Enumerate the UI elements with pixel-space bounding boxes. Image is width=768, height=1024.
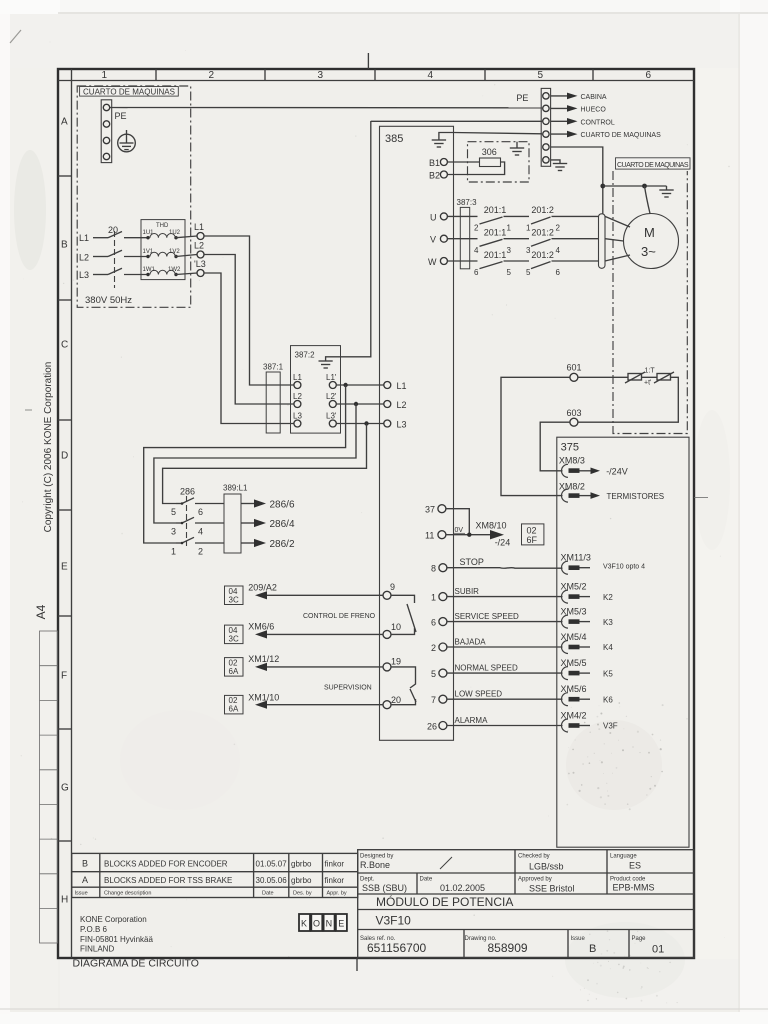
sense wire from L2 junction — [154, 404, 356, 523]
svg-text:CABINA: CABINA — [581, 94, 607, 101]
svg-text:2: 2 — [474, 224, 479, 233]
svg-text:Copyright (C) 2006 KONE Corpor: Copyright (C) 2006 KONE Corporation — [43, 362, 54, 533]
svg-text:1V1: 1V1 — [143, 249, 154, 255]
svg-text:4: 4 — [428, 70, 434, 81]
choke winding 1W1-1W2 — [143, 267, 182, 276]
wire conduit to motor V — [605, 239, 624, 241]
column numbers — [102, 70, 652, 81]
svg-text:XM11/3: XM11/3 — [561, 553, 591, 563]
svg-text:6: 6 — [198, 507, 203, 517]
svg-text:2: 2 — [209, 70, 215, 81]
brake contact blade 9-10 — [391, 595, 416, 634]
svg-text:1W1: 1W1 — [143, 267, 156, 273]
svg-text:5: 5 — [431, 669, 436, 679]
filter terminal L1 in — [294, 382, 301, 389]
svg-text:286/6: 286/6 — [270, 500, 295, 511]
signal 286/2 — [241, 542, 254, 544]
wire conduit to motor U — [605, 216, 630, 227]
svg-text:V3F10: V3F10 — [376, 914, 412, 928]
svg-text:D: D — [61, 451, 68, 462]
svg-text:26: 26 — [427, 722, 437, 732]
motor wire U with contacts 201:1 201:2 — [447, 216, 598, 224]
svg-text:-/24: -/24 — [495, 538, 511, 548]
enclosure label CUARTO DE MAQUINAS — [80, 87, 179, 97]
drive terminal B1 — [440, 159, 447, 166]
svg-text:5: 5 — [526, 268, 531, 277]
brake output box2 04 3C — [225, 625, 244, 644]
top fold mark — [367, 53, 369, 69]
drive terminal W — [440, 258, 447, 265]
svg-text:LOW SPEED: LOW SPEED — [455, 690, 503, 699]
svg-text:L2: L2 — [397, 400, 407, 410]
svg-text:201:2: 201:2 — [531, 250, 554, 260]
wire conduit to motor W — [605, 255, 630, 261]
drive terminal B2 — [440, 171, 447, 178]
svg-text:858909: 858909 — [488, 941, 528, 955]
svg-text:37: 37 — [425, 505, 435, 515]
svg-text:CONTROL DE FRENO: CONTROL DE FRENO — [303, 613, 376, 620]
svg-text:01.05.07: 01.05.07 — [256, 860, 288, 869]
svg-text:11: 11 — [425, 531, 434, 541]
title block left table — [72, 853, 358, 897]
svg-text:B: B — [589, 943, 596, 955]
svg-text:3: 3 — [171, 527, 176, 537]
center fold tick — [694, 497, 708, 499]
svg-text:STOP: STOP — [460, 557, 484, 567]
switch pole L1 — [93, 232, 148, 238]
top ruler line — [58, 80, 694, 82]
svg-text:A4: A4 — [34, 604, 48, 619]
svg-text:A: A — [82, 875, 88, 885]
svg-text:2: 2 — [431, 643, 436, 653]
svg-text:Issue: Issue — [571, 936, 586, 942]
svg-text:ALARMA: ALARMA — [455, 716, 489, 725]
wire 11 to XM8/10 — [446, 534, 490, 536]
filter earth — [319, 121, 371, 368]
svg-text:SSE Bristol: SSE Bristol — [529, 884, 575, 894]
svg-text:380V 50Hz: 380V 50Hz — [85, 295, 132, 306]
svg-text:gbrbo: gbrbo — [291, 860, 312, 869]
svg-text:651156700: 651156700 — [367, 941, 427, 955]
svg-text:P.O.B 6: P.O.B 6 — [80, 925, 108, 934]
svg-text:Dept.: Dept. — [360, 877, 375, 883]
thermistor pair 1:T — [625, 372, 674, 383]
svg-text:K6: K6 — [603, 695, 613, 704]
PE feed HUECO — [551, 107, 567, 109]
svg-text:FINLAND: FINLAND — [80, 945, 114, 954]
motor earth symbol — [659, 186, 673, 197]
svg-text:O: O — [313, 919, 320, 929]
svg-text:Des. by: Des. by — [293, 891, 312, 897]
title block right part — [358, 850, 694, 958]
svg-text:2: 2 — [198, 547, 203, 557]
svg-text:4: 4 — [198, 527, 203, 537]
wire L3 to filter — [204, 273, 294, 424]
motor M 3~ — [624, 214, 679, 269]
junction L1 — [343, 383, 347, 387]
brake output box 04 3C — [225, 586, 244, 605]
svg-text:finkor: finkor — [325, 876, 345, 885]
node L3 out — [197, 270, 204, 277]
svg-text:Change description: Change description — [104, 891, 151, 897]
svg-text:7: 7 — [431, 695, 436, 705]
svg-text:9: 9 — [390, 582, 395, 592]
svg-text:K3: K3 — [603, 618, 613, 627]
svg-text:1U1: 1U1 — [143, 230, 155, 236]
svg-text:201:1: 201:1 — [484, 205, 507, 215]
row letters — [61, 117, 69, 906]
svg-text:K: K — [301, 919, 307, 929]
motor enclosure label — [616, 158, 691, 169]
drive internal earth — [432, 133, 454, 148]
svg-text:Appr. by: Appr. by — [327, 891, 347, 897]
svg-text:XM5/3: XM5/3 — [561, 606, 587, 616]
svg-text:HUECO: HUECO — [581, 107, 607, 114]
choke winding 1U1-1U2 — [143, 230, 181, 239]
svg-text:L3': L3' — [326, 412, 337, 421]
drive input terminal L2 — [384, 401, 391, 408]
svg-text:Language: Language — [610, 854, 637, 860]
svg-text:8: 8 — [431, 564, 436, 574]
svg-text:603: 603 — [567, 408, 582, 418]
svg-text:286: 286 — [180, 487, 195, 497]
main switch dashed link — [114, 231, 116, 288]
svg-text:201:2: 201:2 — [531, 205, 554, 215]
svg-text:NORMAL SPEED: NORMAL SPEED — [455, 664, 518, 673]
PE feed CUARTO DE MAQUINAS — [551, 133, 567, 135]
KONE logo — [299, 914, 347, 931]
filing strip boxes — [40, 631, 58, 943]
svg-text:L1: L1 — [194, 222, 204, 232]
supervision contact blade 19-20 — [391, 667, 416, 705]
svg-text:C: C — [61, 340, 68, 351]
svg-text:L2: L2 — [79, 253, 89, 263]
svg-text:CUARTO DE MAQUINAS: CUARTO DE MAQUINAS — [617, 162, 689, 169]
svg-text:1: 1 — [171, 547, 176, 557]
svg-text:SUPERVISION: SUPERVISION — [324, 685, 372, 692]
svg-text:V3F10 opto 4: V3F10 opto 4 — [603, 564, 645, 571]
svg-text:6: 6 — [646, 70, 652, 81]
svg-text:2: 2 — [556, 224, 561, 233]
svg-text:6: 6 — [474, 268, 479, 277]
svg-text:DIAGRAMA DE CIRCUITO: DIAGRAMA DE CIRCUITO — [73, 958, 199, 970]
svg-text:SERVICE SPEED: SERVICE SPEED — [455, 612, 520, 621]
svg-text:209/A2: 209/A2 — [248, 583, 277, 593]
svg-text:K5: K5 — [603, 669, 613, 678]
svg-text:E: E — [338, 919, 344, 929]
svg-text:3~: 3~ — [641, 244, 656, 259]
svg-text:Approved by: Approved by — [518, 877, 552, 883]
svg-text:BLOCKS ADDED FOR ENCODER: BLOCKS ADDED FOR ENCODER — [104, 860, 228, 869]
filter terminal L1' out — [329, 382, 336, 389]
drive unit 385 box — [380, 126, 454, 740]
wire resistor loop to B2 — [447, 162, 504, 175]
svg-text:-/24V: -/24V — [606, 466, 628, 476]
svg-text:B: B — [61, 240, 68, 251]
svg-text:L1: L1 — [79, 233, 89, 243]
svg-text:19: 19 — [391, 657, 401, 667]
svg-text:BLOCKS ADDED FOR TSS BRAKE: BLOCKS ADDED FOR TSS BRAKE — [104, 876, 232, 885]
motor wire V with contacts 201:1 201:2 — [447, 239, 598, 247]
protective earth symbol — [118, 130, 136, 152]
svg-text:XM8/3: XM8/3 — [559, 455, 585, 465]
wire choke to L1 node — [176, 236, 197, 238]
svg-text:N: N — [326, 919, 333, 929]
wire choke to L2 node — [176, 255, 197, 257]
svg-text:5: 5 — [171, 507, 176, 517]
svg-text:286/4: 286/4 — [270, 519, 295, 530]
row ticks — [58, 176, 72, 841]
svg-text:387:3: 387:3 — [457, 198, 478, 207]
svg-text:H: H — [61, 895, 68, 906]
svg-text:L3: L3 — [397, 420, 407, 430]
svg-text:XM8/2: XM8/2 — [559, 481, 585, 491]
filter terminal L2' out — [329, 401, 336, 408]
svg-text:1: 1 — [102, 70, 108, 81]
svg-text:K2: K2 — [603, 593, 613, 602]
choke THD box — [141, 220, 185, 280]
svg-text:1:T: 1:T — [645, 368, 656, 375]
contact 1-2 — [176, 537, 224, 543]
svg-text:Page: Page — [632, 936, 647, 942]
wire L3' to drive — [336, 423, 384, 425]
stray pencil dash — [25, 409, 32, 411]
svg-text:K4: K4 — [603, 643, 613, 652]
svg-text:EPB-MMS: EPB-MMS — [613, 883, 655, 893]
wire L2 to filter — [204, 255, 294, 405]
svg-text:F: F — [61, 671, 67, 682]
svg-text:389:L1: 389:L1 — [223, 484, 248, 493]
thermistor loop wire — [578, 377, 678, 422]
svg-text:G: G — [61, 783, 69, 794]
wire 37 to 11 node — [446, 509, 469, 535]
svg-text:01.02.2005: 01.02.2005 — [440, 883, 485, 893]
svg-text:387:1: 387:1 — [263, 363, 284, 372]
choke winding 1V1-1V2 — [143, 249, 181, 258]
svg-text:XM5/4: XM5/4 — [561, 632, 587, 642]
switch pole L3 — [93, 268, 148, 274]
svg-text:L1: L1 — [397, 381, 407, 391]
contact 5-6 — [176, 498, 224, 504]
svg-text:L1': L1' — [326, 373, 337, 382]
svg-text:30.05.06: 30.05.06 — [256, 876, 288, 885]
svg-text:4: 4 — [556, 246, 561, 255]
svg-text:6F: 6F — [527, 535, 538, 545]
svg-text:BAJADA: BAJADA — [455, 637, 487, 646]
svg-text:B1: B1 — [429, 158, 440, 168]
svg-text:XM6/6: XM6/6 — [248, 622, 274, 632]
svg-text:201:1: 201:1 — [484, 250, 507, 260]
svg-text:1: 1 — [526, 224, 531, 233]
svg-text:W: W — [428, 257, 437, 267]
svg-text:3: 3 — [507, 246, 512, 255]
wire drive earth to PE strip — [454, 133, 543, 134]
svg-text:L2': L2' — [326, 392, 337, 401]
svg-text:ES: ES — [629, 861, 641, 871]
switch pole L2 — [93, 250, 148, 256]
svg-text:B2: B2 — [429, 171, 440, 181]
svg-text:3C: 3C — [229, 634, 239, 643]
wire 603 to XM8/3 — [540, 422, 570, 471]
wire L2' to drive — [336, 403, 384, 405]
filter terminal L2 in — [294, 401, 301, 408]
contact 286 dashed link — [186, 496, 188, 546]
svg-text:XM5/2: XM5/2 — [561, 581, 587, 591]
svg-text:PE: PE — [115, 111, 127, 121]
earth bus to motor — [603, 185, 667, 187]
filter terminal L3 in — [294, 420, 301, 427]
svg-text:L3: L3 — [293, 412, 302, 421]
svg-text:5: 5 — [538, 70, 544, 81]
drive terminal V — [440, 235, 447, 242]
drive input terminal L3 — [384, 420, 391, 427]
svg-text:KONE Corporation: KONE Corporation — [80, 915, 147, 924]
RFI filter 387:2 — [291, 346, 341, 434]
svg-text:6A: 6A — [229, 667, 239, 676]
wire B1 to resistor — [447, 161, 479, 163]
svg-text:3: 3 — [318, 70, 324, 81]
svg-text:SUBIR: SUBIR — [455, 587, 480, 596]
node L2 out — [197, 251, 204, 258]
junction motor frame — [642, 184, 647, 189]
svg-text:385: 385 — [385, 133, 403, 145]
PE terminal block — [101, 100, 112, 163]
svg-text:306: 306 — [482, 147, 497, 157]
wire choke to L3 node — [176, 273, 197, 275]
brake resistor enclosure (dash-dot) — [468, 142, 530, 182]
svg-text:601: 601 — [567, 363, 582, 373]
motor wire W with contacts 201:1 201:2 — [447, 261, 598, 269]
supervision box 02 6A — [225, 658, 244, 677]
svg-text:20: 20 — [391, 695, 401, 705]
svg-text:Designed by: Designed by — [360, 854, 393, 860]
svg-text:4: 4 — [474, 246, 479, 255]
sense wire from L1 junction — [144, 385, 346, 543]
svg-text:CUARTO DE MAQUINAS: CUARTO DE MAQUINAS — [581, 132, 662, 139]
svg-text:L1: L1 — [293, 373, 302, 382]
resistor earth — [510, 142, 524, 155]
drive terminal U — [440, 213, 447, 220]
svg-text:5: 5 — [507, 268, 512, 277]
filter terminal L3' out — [329, 420, 336, 427]
signal 286/6 — [241, 503, 254, 505]
svg-text:Date: Date — [262, 891, 274, 897]
svg-text:A: A — [61, 117, 68, 128]
svg-text:R.Bone: R.Bone — [360, 860, 390, 870]
wire junction to motor frame — [645, 186, 651, 214]
PE feed CABINA — [551, 95, 567, 97]
node L1 out — [197, 233, 204, 240]
svg-text:U: U — [430, 213, 437, 223]
svg-text:XM5/5: XM5/5 — [561, 658, 587, 668]
svg-text:LGB/ssb: LGB/ssb — [529, 862, 564, 872]
junction L2 — [354, 402, 358, 406]
svg-text:L2: L2 — [293, 392, 302, 401]
svg-text:201:2: 201:2 — [531, 228, 554, 238]
svg-text:L3: L3 — [79, 270, 89, 280]
machine-room dashed enclosure (motor) — [613, 171, 687, 434]
svg-text:SSB (SBU): SSB (SBU) — [362, 883, 407, 893]
signal 286/4 — [241, 522, 254, 524]
svg-text:Issue: Issue — [75, 891, 88, 897]
svg-text:MÓDULO DE POTENCIA: MÓDULO DE POTENCIA — [376, 894, 513, 909]
drive input terminal L1 — [384, 382, 391, 389]
sheet outer frame — [58, 69, 694, 958]
wire L1' to drive — [336, 384, 384, 386]
svg-text:Checked by: Checked by — [518, 854, 550, 860]
svg-text:387:2: 387:2 — [295, 351, 316, 360]
svg-text:XM4/2: XM4/2 — [561, 710, 587, 720]
junction L3 — [364, 421, 368, 425]
svg-text:PE: PE — [516, 93, 528, 103]
svg-text:01: 01 — [652, 944, 664, 956]
svg-text:CUARTO DE MAQUINAS: CUARTO DE MAQUINAS — [83, 87, 175, 96]
svg-text:+t': +t' — [644, 380, 651, 387]
svg-text:XM1/12: XM1/12 — [248, 654, 279, 664]
svg-text:3: 3 — [526, 246, 531, 255]
left ruler line — [71, 69, 73, 958]
svg-text:201:1: 201:1 — [484, 228, 507, 238]
svg-text:1: 1 — [507, 224, 512, 233]
svg-text:286/2: 286/2 — [270, 539, 295, 550]
junction PE motor — [600, 184, 605, 189]
contact 3-4 — [176, 517, 224, 523]
svg-text:FIN-05801 Hyvinkää: FIN-05801 Hyvinkää — [80, 935, 153, 944]
svg-text:6A: 6A — [229, 705, 239, 714]
column ticks — [156, 69, 593, 81]
svg-text:XM1/10: XM1/10 — [248, 693, 279, 703]
svg-text:375: 375 — [561, 442, 579, 454]
svg-text:1: 1 — [431, 593, 436, 603]
svg-text:E: E — [61, 562, 68, 573]
svg-text:3C: 3C — [229, 595, 239, 604]
svg-text:finkor: finkor — [325, 860, 345, 869]
svg-text:gbrbo: gbrbo — [291, 876, 312, 885]
supervision box2 02 6A — [225, 695, 244, 714]
svg-text:CONTROL: CONTROL — [581, 119, 615, 126]
svg-text:'L3: 'L3 — [194, 259, 206, 269]
sense wire from L3 junction — [163, 424, 367, 504]
machine-room dashed enclosure (top-left) — [77, 86, 191, 307]
motor cable conduit — [599, 214, 606, 268]
svg-text:TERMISTORES: TERMISTORES — [607, 492, 665, 501]
svg-text:XM8/10: XM8/10 — [476, 521, 507, 531]
svg-text:V: V — [430, 235, 436, 245]
svg-text:THD: THD — [156, 223, 169, 229]
wire filter earth to PE strip — [371, 120, 542, 122]
svg-text:M: M — [644, 225, 655, 240]
fuse box 02 6F — [522, 524, 544, 545]
svg-text:Date: Date — [420, 877, 433, 883]
svg-text:6: 6 — [431, 618, 436, 628]
svg-text:10: 10 — [391, 622, 401, 632]
wire L1 to filter — [204, 236, 294, 385]
PE strip earth — [551, 160, 568, 171]
PE wire to motor area — [551, 147, 603, 214]
svg-text:6: 6 — [556, 268, 561, 277]
PE feed CONTROL — [551, 120, 567, 122]
svg-text:B: B — [82, 859, 88, 869]
svg-text:XM5/6: XM5/6 — [561, 684, 587, 694]
svg-text:V3F: V3F — [603, 722, 618, 731]
wire PE block to PE strip — [110, 107, 542, 109]
svg-text:L2: L2 — [194, 241, 204, 251]
thermistor unit 375 box — [557, 437, 689, 847]
bottom fold mark — [356, 958, 358, 971]
wire 601 to XM8/2 — [501, 377, 570, 495]
